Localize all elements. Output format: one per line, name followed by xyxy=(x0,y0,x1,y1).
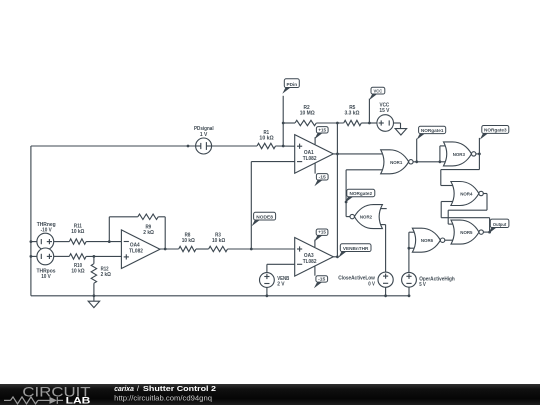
node junction dot 20 at (409,295.8) xyxy=(408,294,411,297)
svg-text:TL082: TL082 xyxy=(129,249,143,255)
wire THRpos to left bus xyxy=(31,255,37,257)
voltage source OperActiveHigh 5V xyxy=(402,272,455,287)
wire R5 to VCC source xyxy=(361,122,377,124)
svg-text:NORgate1: NORgate1 xyxy=(421,128,444,133)
wire THRneg to left bus xyxy=(31,241,37,243)
wire NOR3 feedback to NOR4 input A xyxy=(440,170,442,186)
node junction dot 7 at (416.7,161.8) xyxy=(415,160,418,163)
net flag NODE8 xyxy=(252,212,276,226)
svg-text:10 kΩ: 10 kΩ xyxy=(71,269,84,275)
wire R9 right leg vertical xyxy=(164,217,166,249)
node junction dot 12 at (165.2,249) xyxy=(164,248,167,251)
svg-text:10 kΩ: 10 kΩ xyxy=(259,136,273,142)
wire NOR2 input B to CloseActiveLow xyxy=(385,225,387,273)
flag -15 on OA1 xyxy=(314,163,328,186)
wire NOR4 output horizontal xyxy=(448,209,487,211)
net flag NORgate2 xyxy=(345,189,375,203)
wire OA3 inverting input xyxy=(267,263,295,265)
wire NOR4 input B vertical xyxy=(440,202,442,218)
svg-text:NOR4: NOR4 xyxy=(460,192,473,198)
resistor R1 xyxy=(257,130,276,149)
voltage source CloseActiveLow 0V xyxy=(338,272,393,287)
svg-text:-15: -15 xyxy=(318,276,326,281)
node junction dot 19 at (385.6,295.8) xyxy=(384,294,387,297)
wire VCC flag vertical xyxy=(368,99,370,123)
svg-text:carixa: carixa xyxy=(114,384,134,393)
svg-text:+15: +15 xyxy=(318,127,326,132)
wire VCC source to ground xyxy=(394,122,401,124)
wire OperActiveHigh to ground bus xyxy=(408,287,410,296)
svg-text:10 kΩ: 10 kΩ xyxy=(212,238,225,244)
footer url xyxy=(114,393,212,402)
voltage source VCC 15V xyxy=(377,102,394,131)
resistor R9 xyxy=(138,214,158,236)
svg-text:NOR3: NOR3 xyxy=(453,152,466,158)
svg-text:1 V: 1 V xyxy=(200,132,208,138)
wire VENB top xyxy=(266,264,268,272)
wire NOR2 output to NORgate2 xyxy=(346,216,350,218)
wire output tie column OA1-OA3 xyxy=(336,123,338,257)
voltage source VENB 2V xyxy=(260,273,290,288)
wire R9 left leg horizontal xyxy=(109,216,138,218)
svg-text:-10 V: -10 V xyxy=(41,227,53,233)
resistor R3 xyxy=(209,233,228,252)
NOR gate NOR2 (mirrored, output left) xyxy=(350,205,382,229)
node junction dot 1 at (188,146) xyxy=(187,145,190,148)
svg-text:10 V: 10 V xyxy=(41,274,51,280)
node junction dot 4 at (337.4,123) xyxy=(336,122,339,125)
net flag NORgate3 xyxy=(480,126,509,140)
wire NODE8 to OA3 noninverting input xyxy=(251,248,294,250)
wire OA3 output xyxy=(333,256,337,258)
wire NOR3 feedback horizontal xyxy=(441,169,480,171)
wire R12 top xyxy=(93,256,95,263)
net flag VENBnTHR xyxy=(338,244,371,258)
wire R12 to ground bus xyxy=(93,283,95,296)
wire R9 right horizontal xyxy=(158,216,165,218)
wire NOR2 input A stub xyxy=(380,208,387,210)
resistor R12 xyxy=(91,264,111,284)
op-amp OA4 TL082 (inverting on top) xyxy=(121,230,160,269)
wire NOR6 input B horizontal xyxy=(409,247,415,249)
op-amp OA3 TL082 xyxy=(295,238,334,277)
svg-text:OA4: OA4 xyxy=(130,242,140,248)
net flag PDin xyxy=(282,79,299,94)
wire NOR5 output feedback vertical xyxy=(489,218,491,232)
NOR gate NOR1 xyxy=(381,150,413,174)
node junction dot 3 at (283.2,146) xyxy=(282,145,285,148)
wire NOR6 input column xyxy=(408,232,410,272)
wire VENB to ground bus xyxy=(266,287,268,295)
wire R3 to NODE8 xyxy=(228,248,252,250)
wire VCC ground stub xyxy=(400,123,402,129)
svg-text:10 MΩ: 10 MΩ xyxy=(300,110,315,116)
wire NOR5 input A horizontal xyxy=(448,223,453,225)
svg-text:-15: -15 xyxy=(319,174,327,179)
ground at bottom bus xyxy=(88,301,99,307)
resistor R8 xyxy=(179,233,196,252)
flag +15 on OA1 xyxy=(314,127,328,145)
svg-text:VENBnTHR: VENBnTHR xyxy=(343,246,369,251)
wire NOR6 input A horizontal xyxy=(409,231,415,233)
svg-text:PDin: PDin xyxy=(287,82,298,88)
svg-text:2 V: 2 V xyxy=(277,282,285,288)
wire NOR4 input A horizontal xyxy=(441,185,454,187)
svg-text:2 kΩ: 2 kΩ xyxy=(143,230,154,236)
wire OA1 output to NOR1 input A xyxy=(333,153,383,155)
node junction dot 2 at (283.2,123) xyxy=(282,122,285,125)
node junction dot 18 at (266.9,295.8) xyxy=(266,294,269,297)
node junction dot 14 at (30.9,241.6) xyxy=(30,240,33,243)
node junction dot 6 at (369.4,123) xyxy=(368,122,371,125)
wire NOR3 input A vertical xyxy=(439,146,441,162)
svg-text:NOR2: NOR2 xyxy=(360,215,373,221)
wire NORgate2 column xyxy=(345,170,347,217)
svg-text:Shutter Control 2: Shutter Control 2 xyxy=(143,384,216,393)
node junction dot 15 at (30.9,256.4) xyxy=(30,255,33,258)
wire THRneg to R11 xyxy=(54,241,70,243)
wire NOR1 output to NOR3 input B xyxy=(413,161,447,163)
NOR gate NOR3 xyxy=(444,142,476,166)
wire NORgate3 column xyxy=(478,138,480,170)
wire PDin vertical xyxy=(282,96,284,146)
resistor R10 xyxy=(69,254,86,275)
wire NOR5 output xyxy=(483,231,489,233)
wire CloseActiveLow to ground bus xyxy=(385,287,387,296)
wire OA1 inverting input xyxy=(251,161,294,163)
wire R2 to R5 xyxy=(316,122,343,124)
svg-text:3.3 kΩ: 3.3 kΩ xyxy=(345,110,360,116)
resistor R11 xyxy=(69,224,86,245)
wire bottom ground bus xyxy=(31,295,409,297)
op-amp OA1 TL082 xyxy=(295,135,334,174)
node junction dot 8 at (439.9,161.8) xyxy=(439,160,442,163)
wire NOR3 input A horizontal xyxy=(440,145,447,147)
node junction dot 21 at (408.9,248.2) xyxy=(408,247,411,250)
node junction dot 23 at (346.1,202.0) xyxy=(345,201,348,204)
wire THRpos to R10 xyxy=(54,255,70,257)
wire left bus vertical xyxy=(30,146,32,296)
ground at VCC source xyxy=(395,129,406,135)
wire NODE8 column xyxy=(250,162,252,249)
voltage source PDsignal 1V (battery) xyxy=(194,126,214,154)
net flag Output xyxy=(488,219,509,234)
svg-text:2 kΩ: 2 kΩ xyxy=(101,272,111,278)
wire PDsignal to R1 xyxy=(212,145,257,147)
wire NOR4 output to NOR5 input A xyxy=(447,210,449,224)
net flag NORgate1 xyxy=(417,126,446,140)
node junction dot 10 at (337.4,256.8) xyxy=(336,255,339,258)
svg-text:NORgate2: NORgate2 xyxy=(350,191,373,196)
wire NOR1 input B xyxy=(346,169,384,171)
footer title carixa / Shutter Control 2 xyxy=(114,384,216,393)
NOR gate NOR6 xyxy=(412,228,444,252)
footer bar xyxy=(0,384,540,405)
wire NOR4 input B horizontal xyxy=(441,201,453,203)
wire R10 to OA4 noninverting input xyxy=(86,255,121,257)
wire NORgate1 vertical xyxy=(416,139,418,162)
wire NOR3 output xyxy=(476,153,480,155)
wire ground stub main bus xyxy=(93,296,95,301)
resistor R5 xyxy=(344,105,362,126)
voltage source THRneg -10V xyxy=(37,222,56,250)
voltage source THRpos 10V xyxy=(37,248,56,280)
wire OA4 output to R8 xyxy=(160,248,179,250)
svg-text:NOR6: NOR6 xyxy=(421,238,434,244)
node junction dot 17 at (93.9,295.8) xyxy=(93,294,96,297)
wire R9 left leg vertical xyxy=(108,217,110,242)
svg-text:http://circuitlab.com/cd94gnq: http://circuitlab.com/cd94gnq xyxy=(114,393,212,402)
svg-text:0 V: 0 V xyxy=(368,281,375,287)
NOR gate NOR4 xyxy=(451,182,483,206)
svg-text:15 V: 15 V xyxy=(379,108,390,114)
svg-text:10 kΩ: 10 kΩ xyxy=(71,229,84,235)
wire NOR4 output down xyxy=(486,194,488,211)
node junction dot 5 at (337.4,153.9) xyxy=(336,153,339,156)
node junction dot 9 at (479.4,153.9) xyxy=(478,153,481,156)
wire PDsignal row left segment xyxy=(31,145,196,147)
NOR gate NOR5 xyxy=(451,220,483,244)
wire NOR4 output right xyxy=(483,193,487,195)
wire R1 to OA1 noninverting input xyxy=(276,145,295,147)
wire PDin node to R2 xyxy=(283,122,295,124)
flag -15 on OA3 xyxy=(314,266,328,288)
node junction dot 11 at (251.3,249) xyxy=(250,248,253,251)
net flag VCC xyxy=(369,87,385,100)
node junction dot 22 at (489.6,232.1) xyxy=(488,231,491,234)
svg-text:LAB: LAB xyxy=(66,396,91,405)
svg-text:NOR1: NOR1 xyxy=(390,160,403,166)
svg-text:10 kΩ: 10 kΩ xyxy=(182,238,195,244)
resistor R2 xyxy=(295,105,316,126)
wire R11 to OA4 inverting input xyxy=(86,241,121,243)
node junction dot 13 at (109.3,241.6) xyxy=(108,240,111,243)
wire NOR2 input B horizontal xyxy=(380,224,386,226)
svg-text:TL082: TL082 xyxy=(303,259,317,265)
svg-text:+15: +15 xyxy=(318,230,326,235)
CircuitLab logo text LAB xyxy=(66,396,91,405)
svg-text:VCC: VCC xyxy=(374,88,383,93)
svg-text:NOR5: NOR5 xyxy=(460,230,473,236)
CircuitLab logo waveform (resistor + diode) xyxy=(4,397,63,404)
CircuitLab logo text CIRCUIT xyxy=(22,384,90,399)
svg-text:NODE8: NODE8 xyxy=(256,214,273,219)
svg-text:TL082: TL082 xyxy=(303,156,317,162)
svg-text:5 V: 5 V xyxy=(419,282,426,288)
svg-text:NORgate3: NORgate3 xyxy=(484,128,507,133)
flag +15 on OA3 xyxy=(314,229,328,247)
wire NOR5 output feedback horizontal xyxy=(441,217,489,219)
wire R8 to R3 xyxy=(196,248,209,250)
svg-text:Output: Output xyxy=(493,222,507,228)
wire NOR6 output to NOR5 input B xyxy=(445,239,454,241)
node junction dot 16 at (93.9,256.4) xyxy=(93,255,96,258)
